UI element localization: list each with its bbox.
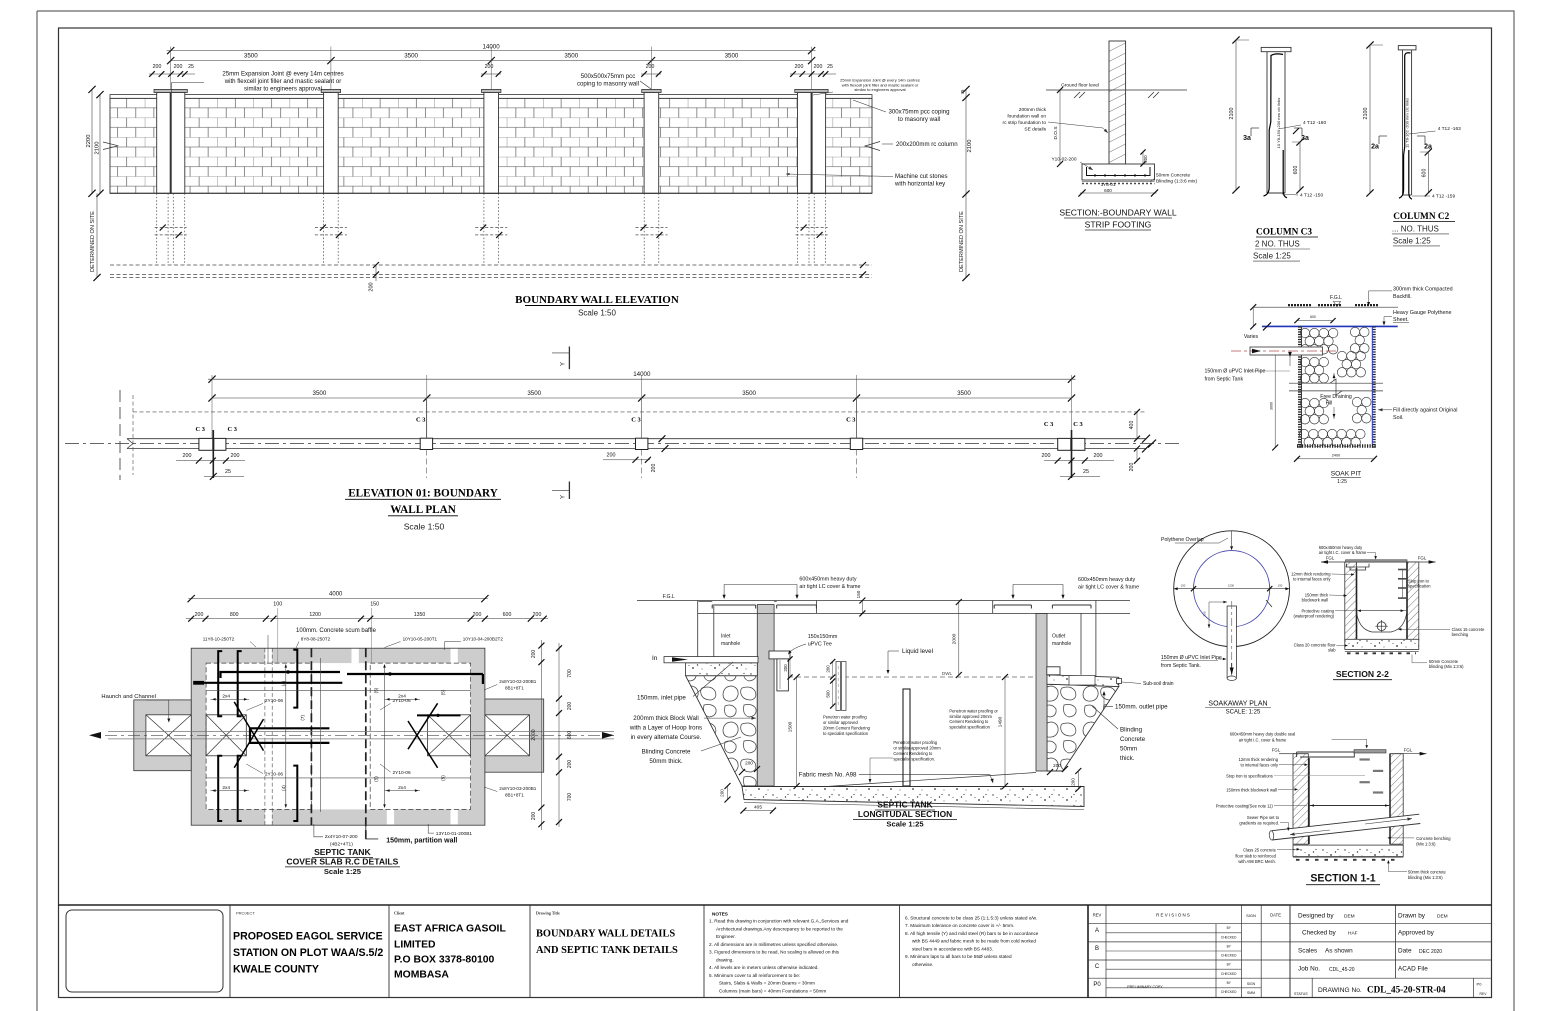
svg-text:SOAKAWAY PLAN: SOAKAWAY PLAN <box>1208 701 1267 708</box>
dim 500 <box>832 681 834 706</box>
uPVC tee <box>769 651 790 659</box>
baffle bar top <box>293 650 297 708</box>
S22 cover plate <box>1346 560 1407 562</box>
plan footing dashed vertical <box>132 395 134 475</box>
svg-text:2Y10-06: 2Y10-06 <box>265 698 283 704</box>
outlet fitting <box>1047 667 1060 675</box>
right rubble wall <box>1047 684 1119 771</box>
svg-text:1490: 1490 <box>998 716 1004 727</box>
scum baffle dashed lines <box>264 648 266 825</box>
S22 ground line <box>1321 561 1436 563</box>
svg-text:2100: 2100 <box>1363 108 1369 120</box>
svg-text:blinding (Mix 1:3:6): blinding (Mix 1:3:6) <box>1408 875 1443 880</box>
svg-text:air tight LC cover & frame: air tight LC cover & frame <box>1078 585 1139 591</box>
svg-text:Backfill.: Backfill. <box>1393 294 1412 300</box>
svg-text:CHECKED: CHECKED <box>1221 990 1237 994</box>
svg-text:10 Y8-150 -200 mm c/c links: 10 Y8-150 -200 mm c/c links <box>1276 98 1281 149</box>
svg-text:DETERMINED ON SITE: DETERMINED ON SITE <box>959 211 965 272</box>
svg-text:C 3: C 3 <box>1073 421 1082 428</box>
soakaway outer circle <box>1174 531 1290 647</box>
inlet slab (speckled) <box>686 663 758 676</box>
svg-text:Cement Rendering to: Cement Rendering to <box>949 719 989 724</box>
svg-text:from Septic Tank.: from Septic Tank. <box>1161 663 1201 669</box>
svg-text:Protective coating(See note 11: Protective coating(See note 11) <box>1216 804 1274 809</box>
svg-text:Columns (main bars) = 40: Columns (main bars) = 40mm Foundations =… <box>719 989 826 994</box>
svg-text:MOMBASA: MOMBASA <box>394 970 449 981</box>
svg-text:200: 200 <box>231 453 240 459</box>
svg-text:F.G.L: F.G.L <box>663 594 675 600</box>
svg-text:... NO. THUS: ... NO. THUS <box>1392 224 1439 233</box>
svg-text:(5): (5) <box>441 775 446 781</box>
svg-text:20mm Cement Rendering: 20mm Cement Rendering <box>823 726 871 731</box>
ground hash marks <box>1074 92 1080 98</box>
svg-text:similar approved 20mm: similar approved 20mm <box>949 714 992 719</box>
outlet manhole covers <box>994 605 1031 609</box>
svg-text:Architectural drawings.Any des: Architectural drawings.Any descrepancy t… <box>716 927 843 932</box>
sub-soil drain square <box>1117 679 1122 684</box>
leader varies vertical <box>1289 351 1291 366</box>
svg-text:(Mix 1:3:6): (Mix 1:3:6) <box>1416 842 1436 847</box>
plan right dims 400/200 <box>1136 412 1138 439</box>
svg-text:specification: specification <box>1408 583 1431 588</box>
svg-text:CHECKED: CHECKED <box>1221 972 1237 976</box>
svg-text:200: 200 <box>814 64 823 70</box>
svg-text:ACAD File: ACAD File <box>1398 966 1428 973</box>
wall edge break wedge right <box>865 142 880 151</box>
title block top line <box>59 904 1492 906</box>
svg-text:blockwork wall: blockwork wall <box>1302 597 1328 602</box>
column C3 main rebar <box>1264 54 1284 196</box>
svg-text:4 T12 -159: 4 T12 -159 <box>1432 194 1455 200</box>
svg-text:NOTES: NOTES <box>712 912 728 917</box>
column C3 boxes in plan <box>199 438 213 450</box>
svg-text:or similar approved 20mm: or similar approved 20mm <box>893 746 941 751</box>
svg-text:3a: 3a <box>1243 135 1251 142</box>
svg-text:12mm thick rendering: 12mm thick rendering <box>1239 757 1279 762</box>
svg-text:Blinding Concrete: Blinding Concrete <box>642 749 691 756</box>
determined on site (right) <box>965 194 967 278</box>
svg-text:Machine cut stones: Machine cut stones <box>895 173 948 180</box>
svg-text:200: 200 <box>195 612 204 618</box>
liquid level dashed <box>788 676 1036 678</box>
svg-text:2100: 2100 <box>1229 108 1235 120</box>
svg-text:3500: 3500 <box>244 53 258 60</box>
svg-text:50mm Concrete: 50mm Concrete <box>1156 173 1190 179</box>
svg-text:1:25: 1:25 <box>1337 479 1347 485</box>
svg-text:2. All dimensions are in milli: 2. All dimensions are in millimetres unl… <box>709 942 838 947</box>
svg-text:13Y10-01-200B1: 13Y10-01-200B1 <box>436 831 473 837</box>
svg-text:CDL_45-20: CDL_45-20 <box>1329 967 1355 973</box>
strip footing <box>1082 164 1155 180</box>
svg-text:uPVC Tee: uPVC Tee <box>808 642 832 648</box>
svg-text:to internal faces only: to internal faces only <box>1240 763 1279 768</box>
dimension row 3500 x4 <box>171 60 812 62</box>
svg-text:P0: P0 <box>1477 982 1483 987</box>
svg-text:200: 200 <box>651 464 657 473</box>
svg-text:4. All levels are in meters un: 4. All levels are in meters unless other… <box>709 965 819 970</box>
svg-text:150: 150 <box>1203 611 1207 616</box>
svg-text:100: 100 <box>273 602 282 608</box>
svg-text:specialist specification: specialist specification <box>949 724 990 729</box>
ring pass-through notches <box>265 649 272 663</box>
dimension 200 at column P3 <box>481 73 501 75</box>
svg-text:200: 200 <box>795 64 804 70</box>
dim 200 tee <box>832 662 834 678</box>
svg-text:with flexcell joint filler and: with flexcell joint filler and mastic se… <box>224 78 342 85</box>
svg-text:DATE: DATE <box>1270 913 1281 918</box>
svg-text:400: 400 <box>1129 421 1135 430</box>
svg-text:Penetron water proofing: Penetron water proofing <box>893 740 937 745</box>
plan dims 200/200/25 left pair <box>176 460 245 462</box>
svg-text:Scale 1:25: Scale 1:25 <box>1393 236 1431 245</box>
svg-text:200: 200 <box>369 282 375 291</box>
svg-text:3Y8-01: 3Y8-01 <box>1101 182 1116 187</box>
svg-text:500: 500 <box>826 690 831 698</box>
svg-text:STRIP FOOTING: STRIP FOOTING <box>1085 220 1152 230</box>
svg-text:Checked by: Checked by <box>1302 930 1337 937</box>
svg-text:2000: 2000 <box>531 729 537 740</box>
svg-text:FGL: FGL <box>1326 556 1335 561</box>
svg-text:CHECKED: CHECKED <box>1221 954 1237 958</box>
S11 stop iron line <box>1309 775 1365 777</box>
svg-text:200mm thick Block Wall: 200mm thick Block Wall <box>633 715 698 722</box>
S11 cover recessed <box>1297 752 1355 757</box>
svg-text:3500: 3500 <box>527 390 541 397</box>
svg-text:8. All high tensile (Y) and mi: 8. All high tensile (Y) and mild steel (… <box>905 931 1039 936</box>
svg-text:SOAK PIT: SOAK PIT <box>1331 470 1361 477</box>
outlet manhole shaft <box>992 601 994 614</box>
svg-text:25: 25 <box>1083 469 1089 475</box>
svg-text:manhole: manhole <box>1052 641 1071 647</box>
svg-text:FGL: FGL <box>1404 748 1413 753</box>
svg-text:600x450mm heavy duty: 600x450mm heavy duty <box>1078 577 1136 583</box>
break line across pit <box>1289 382 1383 384</box>
channel flow arrows <box>89 732 101 739</box>
svg-text:600x450mm heavy duty: 600x450mm heavy duty <box>799 577 857 583</box>
svg-text:Blinding: Blinding <box>1120 727 1143 734</box>
svg-text:air tight LC cover & frame: air tight LC cover & frame <box>799 584 860 590</box>
S11 right wall hatched <box>1390 754 1403 844</box>
left rubble wall <box>686 676 758 786</box>
svg-text:600: 600 <box>567 731 573 740</box>
svg-text:(5): (5) <box>373 776 378 782</box>
svg-text:2100: 2100 <box>95 142 101 155</box>
svg-text:R E V I S I O N S: R E V I S I O N S <box>1156 913 1190 918</box>
S22 left wall hatched <box>1345 562 1357 640</box>
svg-text:1500: 1500 <box>788 721 794 732</box>
dim 600 C3 <box>1299 142 1301 190</box>
dim varies <box>1252 307 1254 326</box>
svg-text:200: 200 <box>183 453 192 459</box>
svg-text:rc strip foundation to: rc strip foundation to <box>1003 120 1047 126</box>
svg-text:KWALE COUNTY: KWALE COUNTY <box>233 964 319 976</box>
svg-text:DEM: DEM <box>1437 914 1448 920</box>
plan property line vertical <box>119 390 121 480</box>
vertical bar-count lines <box>285 665 287 807</box>
svg-text:50mm: 50mm <box>1120 746 1137 753</box>
svg-text:4 T12 -150: 4 T12 -150 <box>1300 193 1323 199</box>
right chamber X-box <box>428 715 471 756</box>
S11 cover gray <box>1354 750 1386 753</box>
wall coping band <box>110 95 872 99</box>
S22 right wall hatched <box>1407 562 1419 640</box>
svg-text:SIGN: SIGN <box>1247 982 1256 986</box>
svg-text:700: 700 <box>567 793 573 802</box>
svg-text:A: A <box>1095 928 1099 934</box>
S11 ground lines <box>1279 753 1295 755</box>
svg-text:FGL: FGL <box>1272 748 1281 753</box>
svg-text:PROPOSED EAGOL SERVICE: PROPOSED EAGOL SERVICE <box>233 931 383 943</box>
svg-text:2400: 2400 <box>1332 454 1340 458</box>
pipe corner dim <box>1209 602 1227 628</box>
title block dividers <box>229 905 231 998</box>
right dims outer 700/200/600/200/700 <box>558 643 560 827</box>
svg-text:In: In <box>652 655 658 662</box>
dim 405 <box>743 810 773 812</box>
svg-text:(waterproof rendering): (waterproof rendering) <box>1293 613 1334 618</box>
svg-text:200: 200 <box>1042 453 1051 459</box>
plan dim 3500 x4 <box>212 397 1072 399</box>
svg-text:steel bars in accordance with: steel bars in accordance with BS 4483. <box>912 946 993 951</box>
svg-text:COLUMN C3: COLUMN C3 <box>1256 228 1312 238</box>
svg-text:25mm Expansion Joint @ every 1: 25mm Expansion Joint @ every 14m centres <box>222 71 343 78</box>
column C3 cap <box>1261 47 1291 51</box>
svg-text:AND SEPTIC TANK DETAILS: AND SEPTIC TANK DETAILS <box>536 945 678 956</box>
svg-text:similar to engineers approval: similar to engineers approval <box>854 87 905 92</box>
svg-text:SECTION 2-2: SECTION 2-2 <box>1336 669 1389 679</box>
dim 2100 column C3 <box>1235 40 1237 190</box>
channel edge lines <box>108 731 614 733</box>
svg-text:Fabric mesh No. A98: Fabric mesh No. A98 <box>799 772 857 779</box>
dims row2 <box>186 618 548 620</box>
svg-text:gradients as required.: gradients as required. <box>1239 820 1279 825</box>
svg-text:8Y8-08-250T2: 8Y8-08-250T2 <box>301 636 331 641</box>
dim 2100 column C2 <box>1369 45 1371 193</box>
right haunch X-box <box>485 715 530 756</box>
svg-text:DEC 2020: DEC 2020 <box>1419 949 1442 955</box>
svg-text:200: 200 <box>567 760 573 769</box>
brick wall masonry <box>110 98 872 193</box>
dimension 200/200/25 right <box>790 73 836 75</box>
svg-text:3a: 3a <box>1301 135 1309 142</box>
dim 200 footing <box>1142 152 1144 164</box>
pilaster pair P5 with expansion joint <box>798 93 826 194</box>
pilaster P4 <box>644 93 659 194</box>
svg-text:3500: 3500 <box>404 53 418 60</box>
column C2 body <box>1402 50 1404 195</box>
svg-text:with BS 4449 and fabric mesh: with BS 4449 and fabric mesh to be made … <box>912 939 1036 944</box>
svg-text:P.O BOX 3378-80100: P.O BOX 3378-80100 <box>394 955 495 966</box>
svg-text:200: 200 <box>485 64 494 70</box>
svg-text:LIMITED: LIMITED <box>394 939 436 950</box>
plan left break wedge <box>127 439 133 449</box>
slab top line <box>698 612 1130 614</box>
svg-text:7. Maximum tolerance on concre: 7. Maximum tolerance on concrete cover i… <box>905 923 1014 928</box>
svg-text:2x4Y10-07-200: 2x4Y10-07-200 <box>325 834 358 840</box>
svg-text:300x75mm pcc coping: 300x75mm pcc coping <box>889 109 950 116</box>
svg-text:F.G.L: F.G.L <box>1330 295 1342 301</box>
left block wall (gray) <box>757 605 774 786</box>
svg-text:As shown: As shown <box>1325 948 1353 955</box>
labels 2x4 with arrows <box>210 698 249 700</box>
svg-text:150: 150 <box>370 602 379 608</box>
foundation wall (hatched) <box>1109 41 1126 164</box>
svg-text:from Septic Tank: from Septic Tank <box>1205 377 1244 383</box>
svg-text:200: 200 <box>783 664 788 672</box>
svg-text:Penetron water proofing: Penetron water proofing <box>823 715 867 720</box>
svg-text:75: 75 <box>960 89 965 94</box>
svg-text:100mm. Concrete scum baffle: 100mm. Concrete scum baffle <box>296 628 377 634</box>
diagonal bars right <box>408 703 438 749</box>
svg-text:Varies: Varies <box>1244 334 1259 340</box>
svg-text:150x150mm: 150x150mm <box>808 634 838 640</box>
svg-text:(5): (5) <box>441 689 446 695</box>
svg-text:Fill: Fill <box>1326 401 1333 407</box>
svg-text:DETERMINED ON SITE: DETERMINED ON SITE <box>90 211 96 272</box>
svg-text:150: 150 <box>1181 584 1186 588</box>
svg-text:BOUNDARY WALL ELEVATION: BOUNDARY WALL ELEVATION <box>515 294 679 306</box>
svg-text:C 3: C 3 <box>846 417 855 424</box>
svg-text:11Y8-10-250T2: 11Y8-10-250T2 <box>203 636 235 641</box>
svg-text:slab: slab <box>1328 648 1336 653</box>
svg-text:9. Minimum laps to all bars to: 9. Minimum laps to all bars to be 55Ø un… <box>905 954 1012 959</box>
revisions table <box>1105 905 1107 998</box>
S22 floor slab <box>1345 639 1419 649</box>
centre bracket bars <box>250 728 329 743</box>
svg-text:200: 200 <box>1094 453 1103 459</box>
svg-text:150: 150 <box>856 590 861 598</box>
svg-text:STATUS: STATUS <box>1294 992 1308 996</box>
S22 blinding <box>1345 650 1419 652</box>
svg-text:SECTION:-BOUNDARY WALL: SECTION:-BOUNDARY WALL <box>1059 208 1177 218</box>
svg-text:Scale 1:25: Scale 1:25 <box>886 819 924 828</box>
svg-text:3500: 3500 <box>742 390 756 397</box>
svg-text:200: 200 <box>473 612 482 618</box>
stones in soak pit <box>1300 328 1309 337</box>
section marker Y bottom <box>568 482 570 500</box>
right haunch (gray) <box>485 699 544 772</box>
small tick right <box>1266 600 1272 607</box>
svg-text:200: 200 <box>1053 763 1061 768</box>
svg-text:Sewer Pipe set to: Sewer Pipe set to <box>1247 815 1280 820</box>
S11 inner faces <box>1308 758 1310 844</box>
svg-text:600: 600 <box>1104 188 1112 193</box>
svg-text:DEM: DEM <box>1344 914 1355 920</box>
svg-text:10Y10-04-200B2T2: 10Y10-04-200B2T2 <box>463 636 504 641</box>
svg-text:D.O.S: D.O.S <box>1053 126 1059 139</box>
dims 4000 top <box>188 598 488 600</box>
ground level line <box>1046 89 1187 91</box>
svg-text:Date: Date <box>1398 948 1412 955</box>
svg-text:300mm thick Compacted: 300mm thick Compacted <box>1393 287 1453 293</box>
dimension 2100 right <box>965 98 967 195</box>
svg-text:200: 200 <box>607 453 616 459</box>
svg-text:2x8Y10-02-200B1: 2x8Y10-02-200B1 <box>499 679 536 684</box>
svg-text:200: 200 <box>153 64 162 70</box>
svg-text:10Y10-05-200T1: 10Y10-05-200T1 <box>403 636 438 641</box>
svg-text:Haunch and Channel: Haunch and Channel <box>101 694 155 700</box>
inlet pipe <box>664 657 758 663</box>
svg-text:Y: Y <box>561 495 567 499</box>
svg-text:otherwise.: otherwise. <box>912 962 933 967</box>
column C2 cap <box>1398 46 1416 50</box>
left haunch X-box <box>146 715 191 756</box>
cover slab outer (gray) <box>191 648 485 825</box>
svg-text:Client: Client <box>394 911 405 916</box>
svg-text:Job No.: Job No. <box>1298 966 1320 973</box>
pilaster P2 <box>324 93 339 194</box>
dim 1500 left <box>796 677 798 786</box>
svg-text:manhole: manhole <box>721 641 740 647</box>
svg-text:150mm Ø uPVC Inlet Pipe: 150mm Ø uPVC Inlet Pipe <box>1205 369 1266 375</box>
svg-text:Fill directly against Original: Fill directly against Original <box>1393 408 1457 414</box>
dimension 200 at column P4 <box>641 73 661 75</box>
svg-text:4 T12 -163: 4 T12 -163 <box>1438 126 1461 132</box>
svg-text:DRAWING No.: DRAWING No. <box>1318 987 1362 994</box>
footing rebar Y10-02-200 <box>1087 167 1151 176</box>
dim 600 C2 <box>1427 152 1429 193</box>
svg-text:2 NO. THUS: 2 NO. THUS <box>1255 240 1300 249</box>
svg-text:150mm Ø uPVC Inlet Pipe: 150mm Ø uPVC Inlet Pipe <box>1161 655 1222 661</box>
partition heavy dashed lines <box>310 648 312 825</box>
svg-text:C 3: C 3 <box>416 417 425 424</box>
S11 protective coating line <box>1309 805 1390 807</box>
svg-text:Stop iron to specifications: Stop iron to specifications <box>1226 774 1273 779</box>
S11 floor slab <box>1293 845 1403 856</box>
svg-text:ELEVATION 01: BOUNDARY: ELEVATION 01: BOUNDARY <box>348 488 498 500</box>
svg-text:Liquid level: Liquid level <box>902 648 933 655</box>
top slab bars (bold) <box>221 672 341 678</box>
S11 blinding <box>1293 857 1403 859</box>
svg-text:6. Structural concrete to be c: 6. Structural concrete to be class 25 (1… <box>905 915 1037 920</box>
column C3 body <box>1266 52 1268 193</box>
plan centre line <box>65 443 1180 445</box>
dimension: foundation 200 <box>375 265 377 281</box>
channel centre line <box>105 734 614 736</box>
S22 benching curve <box>1357 610 1408 612</box>
svg-text:25: 25 <box>188 64 194 70</box>
below-ground column foundations (dashed) <box>156 193 158 265</box>
wall base line <box>110 192 872 194</box>
svg-text:PROJECT: PROJECT <box>236 911 255 916</box>
svg-text:200: 200 <box>531 650 537 659</box>
svg-text:2x8Y10-03-200B1: 2x8Y10-03-200B1 <box>499 786 536 791</box>
chamber dashed outlines <box>206 663 311 809</box>
diagonal bars left <box>234 702 263 751</box>
svg-text:Free Draining: Free Draining <box>1320 394 1352 400</box>
dim 200 wall bottom left <box>739 769 745 775</box>
svg-text:foundation wall on: foundation wall on <box>1007 114 1046 120</box>
svg-text:2000: 2000 <box>951 633 957 644</box>
S22 recessed lid <box>1346 564 1369 570</box>
svg-text:REV: REV <box>1480 992 1488 996</box>
svg-text:4000: 4000 <box>329 592 343 598</box>
dim below pit <box>1297 458 1374 460</box>
dim 2000 <box>958 602 960 675</box>
svg-text:8B1+8T1: 8B1+8T1 <box>505 793 524 798</box>
svg-text:specialist specification.: specialist specification. <box>893 757 935 762</box>
svg-text:Outlet: Outlet <box>1052 633 1066 639</box>
svg-text:Drawn by: Drawn by <box>1398 913 1426 920</box>
svg-text:3000: 3000 <box>1269 402 1273 410</box>
svg-text:200x200mm rc column: 200x200mm rc column <box>896 141 958 148</box>
svg-text:WALL PLAN: WALL PLAN <box>390 504 456 516</box>
svg-text:200: 200 <box>1143 155 1148 163</box>
svg-text:2x4: 2x4 <box>398 694 406 700</box>
svg-text:drawing.: drawing. <box>716 958 734 963</box>
svg-text:200: 200 <box>567 702 573 711</box>
svg-text:Drawing Title: Drawing Title <box>536 911 560 916</box>
